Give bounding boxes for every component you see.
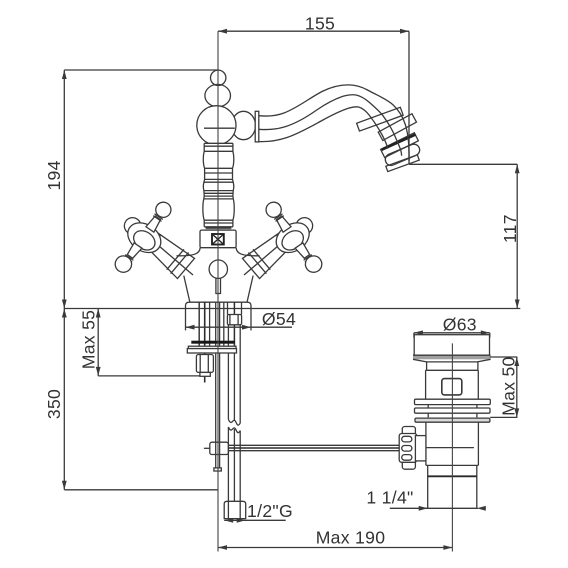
drain body horizontal line bbox=[426, 447, 474, 449]
connector stem bbox=[415, 436, 426, 461]
rod stub bbox=[204, 447, 210, 449]
1/2G fitting bbox=[224, 501, 246, 518]
drain neck bbox=[426, 362, 479, 370]
drain gasket plate 3 bbox=[415, 418, 490, 422]
mounting nut collar bbox=[200, 372, 210, 376]
svg-text:350: 350 bbox=[44, 389, 64, 419]
linkage connector back plate bbox=[402, 427, 415, 470]
spout tube middle line bbox=[259, 95, 402, 156]
spout tube bottom edge bbox=[259, 107, 388, 149]
svg-text:194: 194 bbox=[44, 160, 64, 190]
supply pipe upper bbox=[227, 302, 229, 314]
aerator dark seam bbox=[382, 135, 416, 150]
right valve axis line bbox=[244, 240, 285, 275]
dimension 1/2G bbox=[224, 518, 286, 523]
svg-text:1/2"G: 1/2"G bbox=[247, 501, 293, 521]
wire faucet centerline axis bbox=[217, 31, 219, 551]
drain gasket plate 1 bbox=[415, 399, 491, 404]
aerator band 2 bbox=[378, 114, 416, 141]
drain lower body bbox=[426, 422, 479, 466]
shank line a bbox=[198, 302, 200, 346]
svg-text:Ø54: Ø54 bbox=[262, 309, 296, 329]
washer plate lower bbox=[187, 349, 236, 353]
left handle cross bbox=[100, 190, 182, 283]
drain upper body bbox=[426, 370, 479, 399]
supply pipe bbox=[227, 325, 229, 420]
connector slot 1 bbox=[402, 436, 412, 442]
svg-text:117: 117 bbox=[500, 214, 520, 243]
pop-up rod bbox=[215, 302, 217, 468]
aerator end cap bbox=[384, 142, 422, 167]
shank line c bbox=[223, 302, 225, 346]
tailpiece seam bbox=[428, 475, 477, 477]
horizontal linkage rod bbox=[228, 444, 399, 446]
rod clamp bbox=[210, 442, 229, 454]
dimension 194/350 vertical line bbox=[62, 70, 219, 490]
base plinth bbox=[186, 302, 252, 308]
dimension Max 55 bbox=[96, 309, 205, 376]
svg-text:Max 190: Max 190 bbox=[316, 528, 386, 548]
counter mounting surface line bbox=[64, 308, 520, 310]
mounting nut bbox=[196, 355, 213, 373]
dimension 117 bbox=[409, 164, 519, 308]
column under sphere bbox=[204, 143, 233, 230]
svg-text:Ø63: Ø63 bbox=[443, 315, 477, 335]
faucet body sphere bbox=[197, 106, 236, 145]
spout tube top edge bbox=[259, 85, 409, 161]
mounting stud bbox=[204, 302, 206, 382]
connector slot 3 bbox=[402, 455, 412, 461]
escutcheon block with X bbox=[200, 230, 236, 248]
right valve body bbox=[242, 232, 292, 279]
drain window square bbox=[442, 379, 462, 395]
svg-text:Max 50: Max 50 bbox=[499, 356, 519, 416]
drain flange bbox=[414, 335, 489, 356]
aerator band 3 bbox=[381, 133, 419, 158]
connector slot 2 bbox=[402, 446, 412, 452]
drain tailpiece bbox=[428, 465, 477, 508]
gasket bar bbox=[191, 341, 235, 344]
supply pipe center line bbox=[233, 302, 235, 346]
supply pipe center line bbox=[233, 341, 235, 421]
dimension 1 1/4 bbox=[390, 506, 486, 511]
dimension D63 bbox=[414, 330, 490, 337]
drain centerline bbox=[451, 343, 453, 551]
pop-up knob stem bbox=[216, 278, 221, 293]
washer plate upper bbox=[188, 346, 236, 348]
pop-up knob bbox=[209, 260, 227, 278]
svg-text:155: 155 bbox=[305, 14, 335, 34]
left valve body bbox=[145, 232, 195, 279]
drain flange gray band bbox=[413, 355, 491, 359]
drain gasket plate 2 bbox=[415, 408, 491, 413]
pop-up rod foot bbox=[214, 468, 221, 471]
spout collar ring bbox=[255, 111, 259, 142]
faucet ball finial large bbox=[205, 84, 231, 106]
body sphere inner line bbox=[204, 127, 235, 129]
pipe break symbol bbox=[228, 419, 240, 425]
svg-text:1 1/4": 1 1/4" bbox=[366, 488, 413, 508]
left valve axis line bbox=[152, 240, 193, 275]
drain body edges between plates bbox=[428, 405, 477, 418]
dimension D54 bbox=[186, 309, 293, 331]
dimension Max 190 bbox=[218, 545, 452, 550]
body shoulder S-curves bbox=[177, 248, 201, 256]
faucet ball finial small bbox=[211, 70, 226, 85]
body side lines bbox=[184, 276, 190, 302]
supply hose nut bbox=[227, 315, 241, 325]
dimension 155 line bbox=[218, 29, 409, 164]
spout connector bulge bbox=[232, 111, 256, 139]
linkage connector body bbox=[399, 434, 417, 463]
aerator band 4 bbox=[386, 155, 419, 172]
shank line b bbox=[209, 302, 211, 346]
right handle cross bbox=[255, 190, 337, 283]
dimension Max 50 bbox=[490, 357, 519, 417]
svg-text:Max 55: Max 55 bbox=[79, 310, 99, 370]
aerator band 1 bbox=[357, 107, 404, 131]
flange chamfer bbox=[413, 359, 491, 362]
